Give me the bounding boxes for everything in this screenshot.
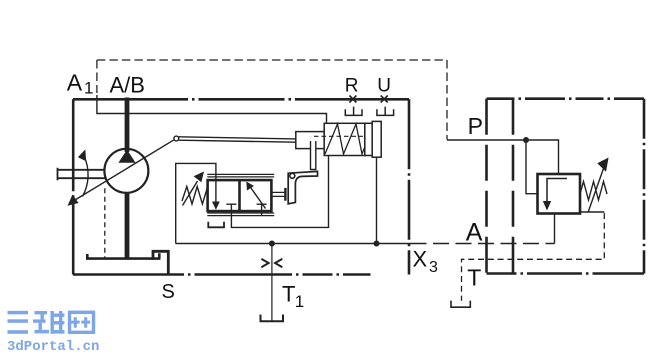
label A1 xyxy=(67,70,94,98)
port S hook xyxy=(153,251,168,274)
svg-text:T: T xyxy=(282,281,295,306)
port U plug X xyxy=(381,96,388,103)
node P junction dot xyxy=(523,137,529,143)
wire A dashed to right block xyxy=(411,243,555,245)
wire pilot to relief valve xyxy=(526,140,538,194)
suction manifold xyxy=(86,253,160,258)
valve port mark left xyxy=(226,204,236,211)
label T1 xyxy=(282,281,304,311)
T1 tank xyxy=(261,315,284,322)
right block channel line 2 xyxy=(512,99,515,274)
relief outlet wire xyxy=(554,214,556,244)
right block envelope top xyxy=(487,97,645,100)
feedback rod eye xyxy=(174,136,179,141)
control valve sleeve lines upper xyxy=(207,174,274,177)
main block envelope right xyxy=(408,99,411,274)
T1 plug chevrons xyxy=(261,259,282,267)
valve port mark right xyxy=(257,204,267,215)
pump variable arrow xyxy=(73,140,175,202)
valve supply arrow xyxy=(215,179,217,203)
pump out triangle xyxy=(118,150,135,163)
pump P1 circle xyxy=(104,149,148,193)
main block envelope left xyxy=(72,99,75,274)
valve flow arrow xyxy=(250,186,266,209)
svg-text:S: S xyxy=(162,281,175,303)
pilot dashed box right xyxy=(446,60,448,140)
right block envelope right xyxy=(643,99,646,274)
lever L1 xyxy=(288,171,317,203)
svg-text:3dPortal.cn: 3dPortal.cn xyxy=(7,339,99,355)
svg-text:A: A xyxy=(466,219,483,247)
cylinder spring xyxy=(325,124,365,154)
pilot dashed box top xyxy=(97,59,447,61)
drain tank xyxy=(451,301,470,308)
valve tank bracket xyxy=(208,222,224,228)
node cylinder junction xyxy=(374,241,380,247)
port R plug X xyxy=(349,96,356,103)
port R bracket xyxy=(345,107,362,116)
main block envelope top xyxy=(73,98,409,101)
feedback rod xyxy=(179,137,296,142)
wire X3 line xyxy=(176,243,411,245)
svg-text:P: P xyxy=(468,113,483,139)
cylinder rod dashed centerline xyxy=(314,135,363,137)
cylinder body C1 xyxy=(324,123,365,155)
node A1 line xyxy=(97,95,327,123)
valve rod right xyxy=(271,192,284,196)
port A/B thick line xyxy=(125,98,130,153)
svg-text:3: 3 xyxy=(429,259,438,276)
svg-text:A: A xyxy=(67,70,83,96)
wire P line xyxy=(447,140,559,174)
svg-text:A/B: A/B xyxy=(110,72,145,97)
main block envelope bottom xyxy=(73,273,409,276)
port U bracket xyxy=(377,107,394,116)
relief drain dashed xyxy=(462,213,605,301)
right block envelope bottom xyxy=(487,272,645,275)
svg-text:R: R xyxy=(345,75,359,96)
pump drive shaft xyxy=(58,168,106,180)
wire cylinder to X3 line xyxy=(376,157,378,243)
watermark logo xyxy=(8,311,94,334)
svg-text:X: X xyxy=(413,246,428,271)
valve drain loop to cylinder xyxy=(231,156,328,228)
relief spring arrow xyxy=(588,167,604,213)
svg-text:T: T xyxy=(467,265,481,291)
relief valve arrow xyxy=(547,179,567,204)
pump to suction thick line xyxy=(125,193,130,260)
case drain dashed xyxy=(104,188,106,258)
control valve sleeve lines lower xyxy=(207,213,274,216)
lever pivot xyxy=(290,173,295,178)
label X3 xyxy=(413,246,439,276)
right block channel line 1 xyxy=(485,99,488,274)
cylinder piston plates xyxy=(365,123,372,155)
node T1 junction xyxy=(269,241,275,247)
pump rotation arrow xyxy=(83,156,89,197)
wire T1 down xyxy=(271,244,273,322)
piston rod vertical xyxy=(311,141,316,170)
valve spring arrow xyxy=(183,181,198,206)
control box wire left xyxy=(176,163,216,243)
svg-text:U: U xyxy=(377,75,391,96)
valve spring xyxy=(182,187,208,205)
svg-text:1: 1 xyxy=(295,292,304,311)
cylinder link block xyxy=(296,132,324,149)
relief valve U2 xyxy=(538,174,581,214)
relief valve spring xyxy=(580,182,607,213)
svg-text:1: 1 xyxy=(84,79,93,98)
control valve body V1 xyxy=(208,180,272,211)
pilot dashed box left xyxy=(96,60,98,93)
